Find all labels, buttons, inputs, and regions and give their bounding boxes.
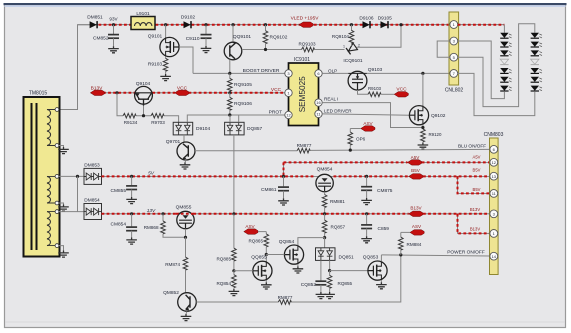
pin 6 (BLU ON/OFF) [490, 145, 498, 153]
svg-text:DM851: DM851 [87, 15, 103, 21]
resistor RQ885 [216, 212, 252, 272]
svg-text:R9703: R9703 [151, 120, 165, 125]
svg-text:QM855: QM855 [176, 204, 192, 210]
resistor RM881 [322, 192, 345, 216]
pin 3 (BOOST DRIVER) [285, 70, 292, 77]
svg-text:SEM5025: SEM5025 [298, 76, 307, 112]
svg-text:D9102: D9102 [181, 15, 195, 21]
svg-text:RQ865: RQ865 [248, 239, 263, 244]
pin 11 (LED DRIVER) [315, 110, 322, 117]
transistor QQ854 [279, 238, 325, 267]
svg-text:D9104: D9104 [196, 126, 210, 132]
diode DM851 [90, 21, 98, 28]
pin 13 (B5V) [473, 167, 498, 180]
svg-text:LED DRIVER: LED DRIVER [324, 109, 352, 114]
svg-text:16: 16 [316, 100, 321, 105]
svg-text:VCC: VCC [177, 85, 188, 91]
svg-text:REAL I: REAL I [324, 96, 338, 101]
resistor RQ865 [248, 232, 268, 257]
svg-text:CM875: CM875 [377, 188, 393, 194]
pin 11 (B5V) [473, 187, 498, 198]
wire: winding 3 return to ground [59, 246, 64, 251]
svg-text:RM877: RM877 [278, 295, 293, 300]
wire: pin1 to LED string 1 red [458, 25, 505, 33]
svg-text:QQ855: QQ855 [251, 255, 267, 261]
svg-text:QQ9101: QQ9101 [233, 34, 251, 40]
svg-text:RM874: RM874 [165, 262, 180, 267]
ground (CM855) [126, 197, 137, 204]
svg-text:Q9101: Q9101 [148, 34, 163, 40]
transistor Q9701 [166, 135, 195, 163]
net flag VCC [175, 85, 189, 95]
svg-text:QM854: QM854 [317, 167, 333, 173]
svg-text:12: 12 [286, 113, 291, 118]
svg-text:R9134: R9134 [124, 120, 138, 125]
capacitor CM855 [111, 175, 138, 197]
svg-text:DM854: DM854 [84, 198, 100, 204]
resistor RQ854 [216, 271, 236, 289]
svg-text:A5V: A5V [473, 154, 481, 159]
svg-text:VCC: VCC [271, 87, 282, 93]
svg-text:RQ855: RQ855 [338, 281, 353, 286]
svg-text:Q9701: Q9701 [166, 139, 181, 145]
pin 1 (B13V) [470, 227, 498, 238]
wire: QQ855 drain to QQ854 gate [266, 255, 284, 262]
resistor RM868 [144, 212, 186, 237]
svg-text:93V: 93V [109, 17, 118, 22]
pin 6 (OLP) [315, 70, 322, 77]
faint inner bottom line [5, 321, 565, 323]
wire: Q9101 gate to boost driver [179, 47, 193, 73]
svg-text:5V: 5V [148, 171, 155, 177]
svg-text:B5V: B5V [411, 168, 421, 173]
svg-text:ASV: ASV [363, 121, 373, 126]
ground (CM854) [126, 238, 137, 245]
svg-text:CM854: CM854 [111, 221, 127, 227]
ground (QQ853) [376, 282, 387, 289]
svg-text:PROT: PROT [269, 110, 282, 116]
net flag B13V [90, 85, 104, 95]
ground (C9110) [201, 46, 212, 53]
transistor QQ853 [363, 255, 387, 283]
wire: B5V branch to pin 11 red [458, 176, 490, 193]
svg-text:B5V: B5V [473, 187, 481, 192]
wire: QQ9101 to ICQ9101 [242, 49, 302, 51]
ground (CM861) [278, 198, 289, 205]
resistor RM877 (power) [278, 295, 293, 305]
transistor Q9104 [135, 81, 153, 106]
svg-text:D9106: D9106 [359, 15, 373, 21]
wire: POWER ON/OFF net [381, 249, 489, 256]
ground (QQ855) [261, 282, 272, 289]
svg-text:1: 1 [343, 44, 345, 48]
resistor RQ9103 [298, 41, 344, 51]
wire: base divider line [117, 93, 179, 123]
svg-text:CQ852: CQ852 [301, 282, 317, 288]
wire: pin 3 to pin 5 jumper [437, 41, 450, 57]
ground (CM875) [361, 198, 372, 205]
pin 16 (REAL I) [315, 99, 322, 106]
diode pack DM853 [84, 162, 102, 184]
net flag B5V [409, 168, 423, 179]
svg-text:13V: 13V [147, 208, 156, 214]
transistor QM854 [316, 167, 333, 192]
net flag VLED +195V [291, 16, 320, 28]
transistor QQ9101 [224, 23, 251, 73]
capacitor C9110 [186, 23, 212, 46]
connector CNL802 [445, 12, 464, 94]
wire: QM852 base to power on/off [196, 255, 400, 302]
svg-text:RQ857: RQ857 [331, 225, 346, 230]
wire: DM851 anode feed from transformer [59, 25, 89, 110]
pin 12 (PROT) [285, 111, 292, 118]
transistor Q9102 [409, 73, 445, 124]
svg-text:POWER ON/OFF: POWER ON/OFF [447, 249, 485, 255]
wire: VCC net red dashed [90, 91, 284, 94]
top navy border [4, 3, 567, 5]
wire: pin7 CNL802 to Q9103/Q9102 [367, 72, 449, 75]
svg-text:ICQ9101: ICQ9101 [343, 58, 363, 64]
net flag A5V (RM884) [401, 224, 424, 235]
resistor RQ855 [327, 260, 352, 292]
wire: LED DRIVER net [322, 109, 409, 116]
ground (winding 1) [58, 147, 69, 154]
capacitor CQ852 [301, 260, 327, 292]
svg-text:R9103: R9103 [368, 86, 381, 91]
svg-text:CM855: CM855 [111, 188, 127, 194]
inductor L9101 [131, 11, 155, 30]
transformer TM8015 [24, 90, 60, 256]
resistor R9103 (Q9103) [358, 86, 395, 97]
LED string 1 [500, 33, 511, 91]
pin 3 (CNL802) [450, 37, 458, 45]
svg-text:OP6: OP6 [356, 137, 366, 142]
ground (Q9701) [180, 162, 191, 169]
ground (C859) [361, 236, 372, 243]
resistor R9103 [148, 56, 168, 74]
svg-text:CM861: CM861 [261, 187, 277, 193]
wire: winding 3 to DM854 [59, 211, 84, 213]
svg-text:ASV: ASV [412, 224, 422, 229]
resistor RQ9106 [228, 93, 253, 117]
transistor QM855 [176, 204, 196, 239]
wire: A5V rail red dashed [284, 161, 490, 163]
wire: VLED top rail underline [78, 24, 450, 26]
svg-text:TM8015: TM8015 [29, 90, 48, 96]
resistor OP6 [348, 129, 366, 150]
svg-text:CNM803: CNM803 [484, 132, 504, 138]
svg-text:CM852: CM852 [93, 36, 109, 42]
net flag A5V (OP6) [350, 121, 375, 131]
pin 1 (CNL802) [450, 21, 458, 29]
diode ICQ9101 [343, 23, 403, 64]
diode pack D9104 [173, 115, 284, 135]
pin 3 (B13V) [470, 207, 498, 218]
svg-text:RQ9104: RQ9104 [332, 34, 350, 39]
transistor Q9103 [348, 67, 382, 90]
svg-text:IC9101: IC9101 [294, 57, 310, 63]
capacitor CM875 [361, 175, 393, 198]
wire: pin 5 to LED string 2 anode [458, 24, 535, 107]
top light blue strip [5, 5, 566, 7]
svg-text:B13V: B13V [410, 205, 422, 210]
ground (RQ854) [229, 289, 240, 296]
pin 5 (CNL802) [450, 53, 458, 61]
resistor RM877 (BLU) [297, 143, 312, 153]
svg-text:A5V: A5V [411, 155, 421, 160]
transistor QQ855 [251, 255, 272, 283]
wire: BLU ON/OFF net [195, 144, 490, 152]
ground (RQ855) [324, 292, 335, 299]
wire: LED string 1 cathode to pin 3 [458, 41, 505, 99]
ground (CM852) [108, 46, 119, 53]
wire: B13V branch to pin 1 red [458, 214, 490, 234]
wire: DQ851 to QQ853 gate [330, 270, 368, 272]
svg-text:RQ9102: RQ9102 [270, 34, 288, 40]
wire: LED string 2 cathode to pin 7 [458, 73, 535, 115]
svg-text:RQ9105: RQ9105 [234, 82, 252, 88]
resistor RQ9105 [228, 73, 253, 92]
resistor RQ9104 [332, 25, 354, 46]
node B13V branch [115, 91, 118, 94]
svg-text:B13V: B13V [91, 85, 104, 91]
resistor R9134 [123, 113, 145, 124]
svg-text:C9110: C9110 [186, 36, 200, 42]
svg-text:ASV: ASV [245, 224, 255, 229]
resistor R9703 [151, 113, 165, 124]
svg-text:RM868: RM868 [144, 225, 159, 230]
svg-text:QM852: QM852 [163, 290, 179, 296]
capacitor CM861 [261, 176, 289, 198]
svg-text:CNL802: CNL802 [445, 88, 464, 94]
wire: winding 2 return to ground [59, 203, 64, 205]
capacitor CM852 [93, 25, 119, 47]
svg-text:13: 13 [492, 174, 497, 179]
net flag A5V (rail) [408, 155, 422, 165]
ground (R9103) [160, 74, 171, 81]
resistor RQ857 [322, 214, 345, 239]
capacitor C859 [361, 212, 389, 236]
svg-text:B5V: B5V [473, 167, 481, 172]
pin 14 (POWER ON/OFF) [490, 252, 498, 260]
diode pack DQ857 [225, 115, 263, 214]
ground (QM852) [181, 314, 192, 321]
ground (QQ854) [293, 266, 304, 273]
wire: 5V rail red dashed [102, 171, 490, 177]
LED string 2 [531, 33, 542, 91]
svg-text:14: 14 [492, 254, 497, 259]
svg-text:Q9102: Q9102 [431, 113, 446, 119]
svg-text:RQ854: RQ854 [216, 281, 231, 286]
svg-text:RQ9103: RQ9103 [298, 41, 316, 46]
ground (R9120) [418, 143, 429, 150]
svg-text:QQ853: QQ853 [363, 255, 379, 261]
svg-text:D9105: D9105 [378, 15, 392, 21]
resistor RM884 [399, 232, 422, 255]
svg-text:OLP: OLP [328, 68, 337, 73]
svg-text:R9103: R9103 [148, 62, 162, 68]
svg-text:L9101: L9101 [136, 11, 150, 17]
pin 1 (VCC) [271, 87, 292, 96]
pin 12 (A5V) [473, 154, 498, 166]
diode pack DM854 [84, 198, 102, 220]
diode D9105 [381, 21, 389, 28]
resistor RM874 [165, 237, 188, 293]
ground (winding 3) [58, 251, 69, 258]
svg-text:B13V: B13V [470, 227, 480, 232]
ground (winding 2) [58, 205, 69, 212]
svg-text:BOOST DRIVER: BOOST DRIVER [243, 68, 280, 74]
svg-text:VCC: VCC [396, 87, 407, 93]
net flag VCC (Q9103) [394, 87, 408, 97]
svg-text:RM884: RM884 [407, 242, 422, 247]
wire: BOOST DRIVER net [193, 68, 285, 75]
wire: winding 2 to DM853 [59, 175, 84, 212]
connector CNM803 [484, 132, 504, 274]
svg-text:RQ9106: RQ9106 [234, 101, 252, 107]
ground (CQ852) [316, 292, 327, 299]
diode pack DQ851 [316, 238, 355, 261]
svg-text:B13V: B13V [470, 207, 480, 212]
svg-text:DM853: DM853 [84, 162, 100, 168]
IC op-amp U IC9101 SEM5025 [289, 57, 319, 126]
wire: 13V rail red dashed [102, 208, 490, 214]
svg-text:QQ854: QQ854 [279, 239, 295, 245]
resistor RQ9102 [263, 23, 287, 49]
svg-text:DQ851: DQ851 [339, 254, 355, 260]
net flag B13V (rail) [409, 205, 423, 216]
transistor Q9101 [148, 23, 179, 57]
diode D9102 [184, 21, 192, 28]
svg-text:BLU ON/OFF: BLU ON/OFF [458, 144, 486, 149]
svg-text:DQ857: DQ857 [247, 126, 263, 132]
resistor R9120 [421, 125, 442, 143]
wire: REAL I sense [322, 96, 423, 127]
svg-text:RM881: RM881 [330, 199, 345, 204]
svg-text:RQ885: RQ885 [216, 256, 231, 261]
capacitor CM854 [111, 212, 138, 237]
svg-text:Q9103: Q9103 [368, 67, 383, 73]
wire: winding 1 return to ground [59, 146, 64, 148]
pin 7 (CNL802) [450, 70, 458, 78]
wire: red dashed VLED rail [99, 24, 450, 26]
svg-text:RM877: RM877 [297, 143, 312, 148]
svg-text:VLED +195V: VLED +195V [291, 16, 320, 22]
diode D9106 [363, 21, 371, 28]
wire: A5V branch red [282, 162, 285, 178]
wire: OLP net [322, 68, 348, 73]
net flag A5V (RQ865) [244, 224, 266, 234]
svg-text:R9120: R9120 [429, 132, 442, 137]
svg-text:C859: C859 [378, 226, 390, 232]
transistor QM852 [163, 290, 196, 314]
svg-text:Q9104: Q9104 [136, 81, 151, 87]
svg-text:12: 12 [492, 160, 497, 165]
